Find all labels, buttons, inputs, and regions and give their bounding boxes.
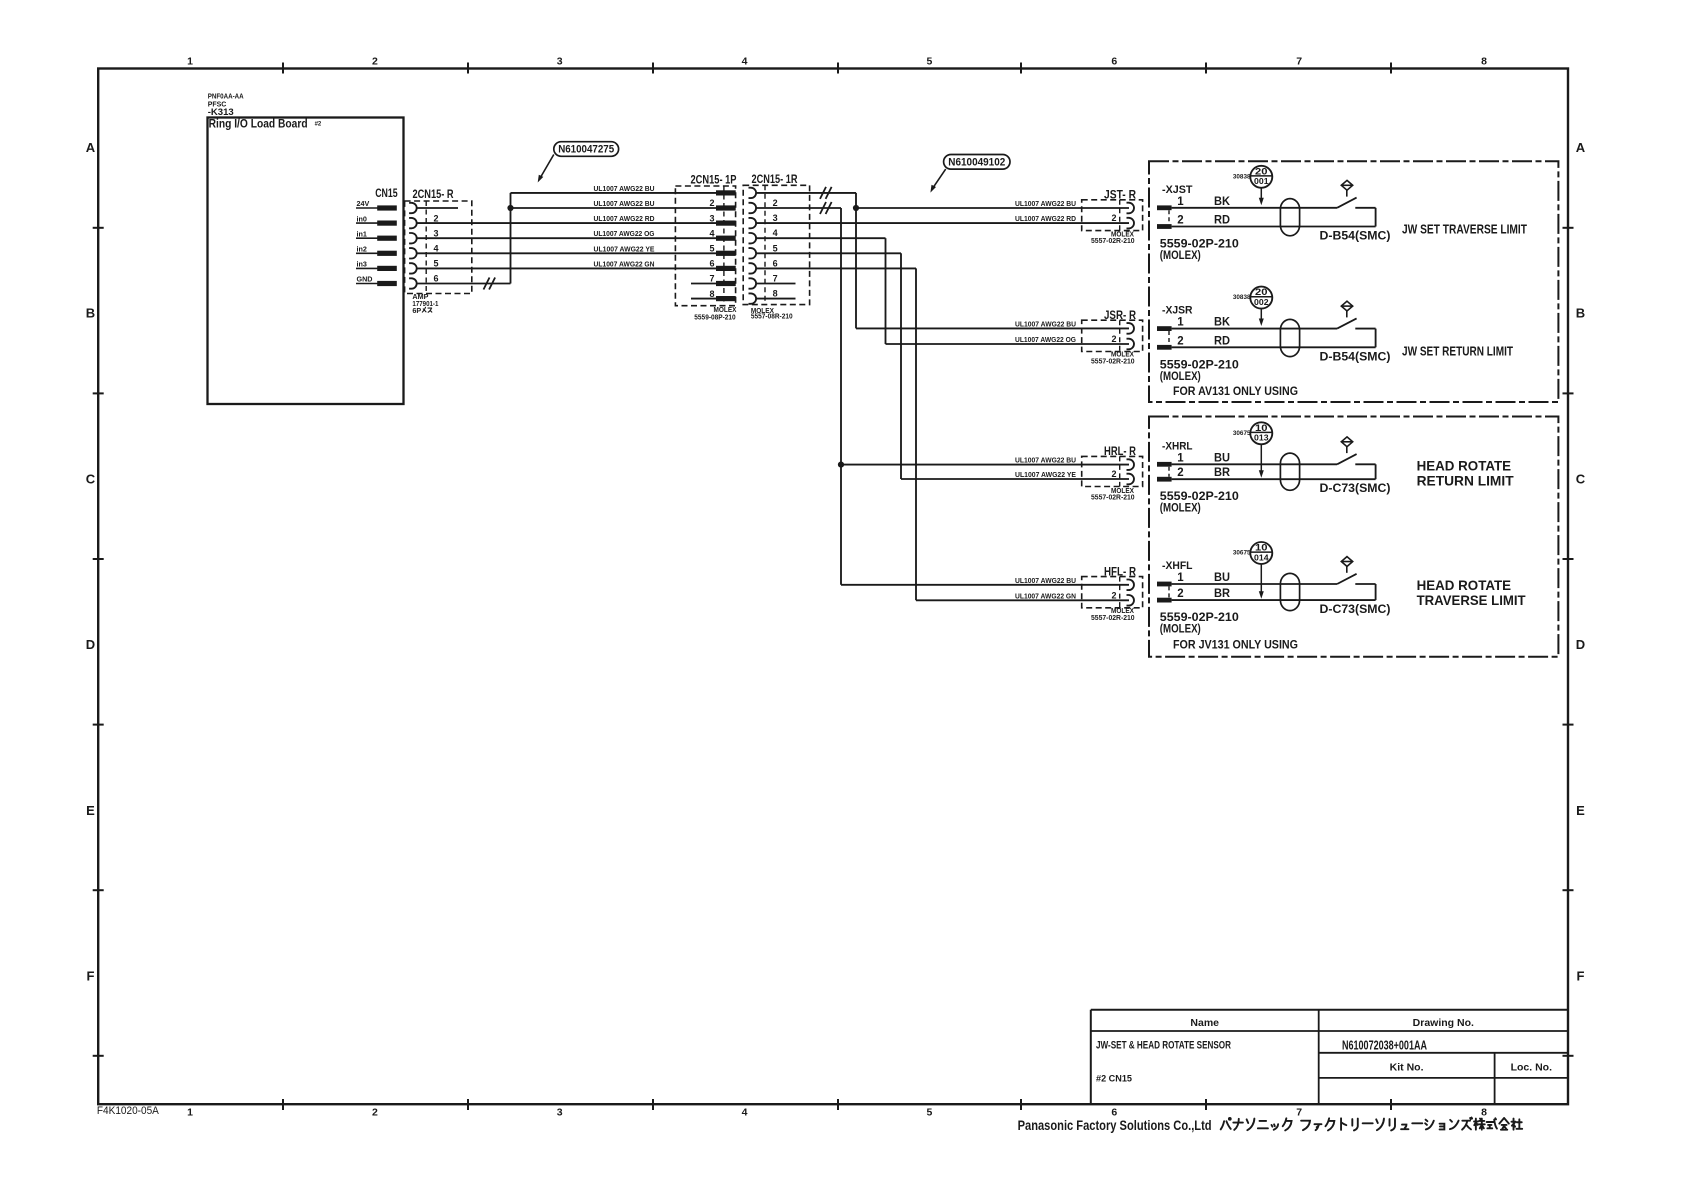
sensor -XJSR label [1162,305,1193,317]
wire BU to 2CN15-1P pin2 [511,207,717,209]
svg-text:4: 4 [773,228,778,238]
connector 2CN15-1R contacts [749,188,757,304]
svg-text:2: 2 [372,1107,378,1119]
svg-text:UL1007 AWG22 OG: UL1007 AWG22 OG [594,229,655,238]
wire YE drop to HRL-R pin2 [756,253,1129,479]
wire -XJST pin2 RD return loop [1172,208,1376,227]
wire harness cable 1 BU with twisted mark [756,187,856,199]
connector JST-R label [1104,190,1137,202]
svg-text:Panasonic Factory Solutions Co: Panasonic Factory Solutions Co.,Ltd [1018,1117,1212,1133]
svg-text:(MOLEX): (MOLEX) [1160,624,1201,636]
svg-text:UL1007 AWG22 RD: UL1007 AWG22 RD [1015,214,1076,223]
cable marker oval -XJST [1280,199,1299,236]
svg-text:HRL- R: HRL- R [1104,446,1137,458]
wire label UL1007 AWG22 YE [1015,470,1076,479]
wire in0 to 2CN15-1P pin3 [417,222,716,224]
svg-text:20: 20 [1255,166,1268,177]
svg-text:FOR AV131 ONLY USING: FOR AV131 ONLY USING [1173,384,1298,398]
svg-text:2: 2 [1177,588,1183,600]
svg-text:30675: 30675 [1233,430,1251,437]
wire labels UL1007 AWG22 left harness [594,184,655,269]
svg-text:4: 4 [709,228,714,238]
zone letters right [1576,140,1586,984]
svg-text:7: 7 [773,274,778,284]
zone numbers top [187,56,1487,68]
svg-text:5: 5 [926,1107,932,1119]
connector 2CN15-R pin numbers 2-6 [434,213,439,283]
svg-text:BU: BU [1214,572,1230,584]
svg-text:2: 2 [1177,467,1183,479]
svg-text:FOR JV131 ONLY USING: FOR JV131 ONLY USING [1173,638,1298,652]
svg-text:3: 3 [709,213,714,223]
connector 2CN15-R dashed box [405,201,472,294]
sensor -XHRL pin bars [1157,462,1172,482]
balloon arrow for -XHRL [1259,444,1264,478]
svg-text:C: C [1576,471,1586,486]
svg-text:2CN15- R: 2CN15- R [413,189,455,201]
connector HRL-R pin number 2 [1111,469,1116,479]
svg-text:#2 CN15: #2 CN15 [1096,1073,1133,1084]
sensor -XJST label [1162,184,1193,196]
wire -XJSR pin2 RD return loop [1172,329,1376,348]
connector 2CN15-1P part text MOLEX 5559-08P-210 [694,305,736,321]
wire label UL1007 AWG22 BU [1015,319,1076,328]
svg-text:2: 2 [1177,335,1183,347]
junction node BU at HRL row [838,462,844,468]
svg-text:10: 10 [1255,423,1268,434]
svg-text:2CN15- 1P: 2CN15- 1P [691,175,737,187]
svg-text:E: E [1576,803,1585,818]
sensor -XHRL label [1162,440,1193,452]
connector JST-R part text MOLEX 5557-02R-210 [1091,229,1135,245]
svg-text:UL1007 AWG22 BU: UL1007 AWG22 BU [1015,576,1076,585]
document number F4K1020-05A [97,1105,160,1117]
sensor -XHFL part text 5559-02P-210 (MOLEX) [1160,612,1239,636]
connector 2CN15-1P pin bars [716,190,736,301]
svg-text:2CN15- 1R: 2CN15- 1R [752,174,799,186]
connector 2CN15-R label [413,189,455,201]
limit switch -XHFL actuator diamond [1341,557,1352,573]
svg-text:6P: 6P [412,306,421,315]
wire label UL1007 AWG22 BU [1015,199,1076,208]
svg-text:2: 2 [372,56,378,68]
svg-text:2: 2 [1111,469,1116,479]
svg-text:3: 3 [557,56,563,68]
svg-text:C: C [86,471,96,486]
sensor -XJSR pin bars [1157,326,1172,349]
sensor -XHFL label [1162,560,1193,572]
wire label UL1007 AWG22 OG [1015,335,1076,344]
svg-text:2: 2 [1111,334,1116,344]
svg-text:UL1007 AWG22 RD: UL1007 AWG22 RD [594,214,655,223]
svg-text:Drawing No.: Drawing No. [1413,1017,1474,1029]
svg-text:UL1007 AWG22 BU: UL1007 AWG22 BU [1015,319,1076,328]
svg-text:1: 1 [1177,196,1184,208]
callout N610049102 [930,155,1010,193]
board -K313 Ring I/O Load Board outline [208,118,404,405]
callout N610047275 [538,142,619,183]
svg-text:1: 1 [187,56,193,68]
svg-text:6: 6 [709,259,714,269]
svg-text:5: 5 [926,56,932,68]
connector JST-R contacts [1127,203,1135,229]
function label HEAD ROTATE TRAVERSE LIMIT [1417,577,1526,608]
svg-text:HEAD ROTATE: HEAD ROTATE [1417,457,1512,473]
connector 2CN15-1P pin7 pin8 stubs [691,284,716,299]
svg-text:10: 10 [1255,543,1268,554]
svg-text:UL1007 AWG22 OG: UL1007 AWG22 OG [1015,335,1076,344]
sensor -XJST wire codes BK RD [1214,196,1231,227]
note FOR JV131 ONLY USING [1173,638,1298,652]
svg-text:F: F [1577,969,1585,984]
wire -XJST pin1 BK [1172,207,1338,209]
sensor -XJST device D-B54(SMC) [1320,229,1391,243]
svg-text:5: 5 [709,244,714,254]
wire label UL1007 AWG22 GN [1015,591,1076,600]
svg-text:RETURN LIMIT: RETURN LIMIT [1417,472,1514,488]
svg-text:4: 4 [434,244,439,254]
sensor -XHFL device D-C73(SMC) [1320,602,1391,616]
zone letters left [86,140,96,984]
svg-text:UL1007 AWG22 YE: UL1007 AWG22 YE [1015,470,1076,479]
connector 2CN15-1R part text MOLEX 5557-08R-210 [751,306,793,321]
svg-text:2: 2 [773,198,778,208]
svg-text:2: 2 [434,213,439,223]
svg-text:N610072038+001AA: N610072038+001AA [1342,1038,1427,1053]
svg-text:002: 002 [1254,298,1269,307]
wire 24V stub pin1 [417,207,458,209]
svg-text:5559-02P-210: 5559-02P-210 [1160,491,1239,503]
svg-text:N610047275: N610047275 [558,144,614,156]
svg-text:013: 013 [1254,434,1269,443]
svg-text:6: 6 [434,274,439,284]
svg-text:A: A [1576,140,1586,155]
sensor -XHFL pin bars [1157,582,1172,603]
connector HRL-R label [1104,446,1137,458]
sensor -XHRL wire codes BU BR [1214,452,1231,479]
svg-text:30838: 30838 [1233,173,1251,180]
balloon 30838 20/001 for -XJST [1233,166,1272,188]
svg-text:HEAD ROTATE: HEAD ROTATE [1417,577,1512,593]
svg-text:(MOLEX): (MOLEX) [1160,503,1201,515]
sensor -XJST pin bars [1157,205,1172,229]
title block name JW-SET & HEAD ROTATE SENSOR [1096,1039,1231,1051]
svg-text:RD: RD [1214,335,1230,347]
board title Ring I/O Load Board #2 [209,117,322,131]
svg-text:2: 2 [1111,590,1116,600]
cable marker oval -XJSR [1280,319,1299,356]
connector HFL-R pin number 2 [1111,590,1116,600]
wire GND with twisted mark [417,278,511,290]
limit switch -XHRL blade [1337,454,1357,464]
wire OG drop to JSR-R pin2 [756,238,1129,344]
wire BU to 2CN15-1P pin1 [511,192,717,194]
svg-text:5559-08P-210: 5559-08P-210 [694,312,735,321]
function label JW SET RETURN LIMIT [1402,344,1513,359]
sensor -XJSR part text 5559-02P-210 (MOLEX) [1160,359,1239,383]
connector HFL-R label [1104,566,1137,578]
cable marker oval -XHRL [1280,453,1299,490]
connector HRL-R contacts [1127,459,1135,484]
wire -XHFL pin1 BU [1172,583,1338,585]
wire cable 2 BU drop to HRL and HFL [841,208,1129,585]
svg-text:3: 3 [434,228,439,238]
svg-text:B: B [1576,306,1585,321]
sensor -XJSR wire codes BK RD [1214,317,1231,348]
connector 2CN15-1R label [752,174,799,186]
title block grid [1091,1010,1568,1104]
svg-text:in3: in3 [357,260,367,269]
connector 2CN15-1R dashed box [743,185,809,304]
svg-text:JST- R: JST- R [1104,190,1137,202]
title block note #2 CN15 [1096,1073,1133,1084]
zone numbers bottom [187,1107,1487,1119]
connector 2CN15-1R pin numbers [773,198,778,299]
svg-text:1: 1 [187,1107,193,1119]
sensor -XJST part text 5559-02P-210 (MOLEX) [1160,239,1239,263]
svg-text:F: F [87,969,95,984]
svg-text:001: 001 [1254,177,1269,186]
sensor -XHFL wire codes BU BR [1214,572,1231,600]
balloon arrow for -XHFL [1259,564,1264,599]
svg-text:30838: 30838 [1233,294,1251,301]
balloon 30838 20/002 for -XJSR [1233,287,1272,309]
sensor -XJSR pin numbers [1177,317,1184,348]
connector JST-R dashed box [1082,200,1143,231]
svg-text:B: B [86,306,95,321]
svg-text:5557-08R-210: 5557-08R-210 [751,312,793,321]
connector JST-R pin number 2 [1111,213,1116,223]
wire -XHRL pin1 BU [1172,463,1338,465]
svg-text:7: 7 [709,274,714,284]
balloon 30675 10/013 for -XHRL [1233,422,1272,444]
svg-text:8: 8 [1481,1107,1487,1119]
svg-text:UL1007 AWG22 GN: UL1007 AWG22 GN [1015,591,1076,600]
svg-text:5557-02R-210: 5557-02R-210 [1091,493,1135,502]
svg-text:JW SET TRAVERSE LIMIT: JW SET TRAVERSE LIMIT [1402,221,1527,236]
connector 2CN15-1P dashed box [675,186,735,306]
wire -XHFL pin2 BR return loop [1172,584,1376,600]
wire label UL1007 AWG22 RD [1015,214,1076,223]
svg-text:#2: #2 [315,122,322,128]
note FOR AV131 ONLY USING [1173,384,1298,398]
wire label UL1007 AWG22 BU [1015,576,1076,585]
svg-text:4: 4 [742,1107,748,1119]
wire BU to HRL-R pin1 [841,464,1129,466]
svg-text:6: 6 [1111,56,1117,68]
svg-text:5: 5 [434,259,439,269]
svg-text:D: D [86,637,95,652]
connector 2CN15-R contacts [409,203,417,289]
group dashed box AV131 sensors [1149,161,1558,402]
svg-text:5: 5 [773,243,778,253]
connector 2CN15-1P pin numbers [709,198,714,299]
connector JSR-R pin number 2 [1111,334,1116,344]
function label HEAD ROTATE RETURN LIMIT [1417,457,1514,488]
svg-text:3: 3 [773,213,778,223]
svg-text:GND: GND [357,275,373,284]
limit switch -XJSR actuator diamond [1341,301,1352,317]
svg-text:8: 8 [773,289,778,299]
svg-text:Name: Name [1190,1017,1219,1029]
svg-text:UL1007 AWG22 BU: UL1007 AWG22 BU [1015,456,1076,465]
svg-text:3: 3 [557,1107,563,1119]
svg-text:BR: BR [1214,588,1231,600]
title block header Loc. No. [1511,1062,1552,1074]
svg-text:UL1007 AWG22 YE: UL1007 AWG22 YE [594,244,655,253]
wire -XHRL pin2 BR return loop [1172,464,1376,479]
svg-text:1: 1 [1177,317,1184,329]
connector HRL-R dashed box [1082,456,1143,486]
wire BU to JST-R pin1 [856,207,1129,209]
svg-text:24V: 24V [357,199,370,208]
wire -XJSR pin1 BK [1172,328,1338,330]
title block header Name [1190,1017,1219,1029]
zone ticks top edge [283,63,1391,74]
sensor -XHRL pin numbers [1177,452,1184,479]
svg-text:A: A [86,140,96,155]
svg-text:F4K1020-05A: F4K1020-05A [97,1105,160,1117]
zone ticks left edge [93,228,104,1056]
connector JSR-R contacts [1127,323,1135,349]
svg-text:UL1007 AWG22 BU: UL1007 AWG22 BU [594,184,655,193]
svg-text:5559-02P-210: 5559-02P-210 [1160,239,1239,251]
svg-text:5559-02P-210: 5559-02P-210 [1160,359,1239,371]
wire GN drop to HFL-R pin2 [756,268,1129,600]
company name Panasonic Factory Solutions [1018,1117,1523,1133]
wire cable 1 BU drop to JSR [856,193,1129,329]
svg-text:6: 6 [773,258,778,268]
junction node riser to BU wire [507,205,513,211]
title block header Drawing No. [1413,1017,1474,1029]
group dashed box JV131 sensors [1149,417,1558,657]
connector 2CN15-1R pin7 pin8 stubs [756,284,795,299]
svg-text:E: E [86,803,95,818]
sensor -XJST pin numbers [1177,196,1184,227]
connector JSR-R dashed box [1082,320,1143,351]
function label JW SET TRAVERSE LIMIT [1402,221,1527,236]
sensor -XHFL pin numbers [1177,572,1184,600]
limit switch -XJST blade [1337,198,1357,208]
cable marker oval -XHFL [1280,573,1299,610]
svg-text:BK: BK [1214,196,1231,208]
connector HFL-R dashed box [1082,577,1143,608]
balloon arrow for -XJSR [1259,309,1264,326]
wire in3 to 2CN15-1P pin6 [417,267,716,269]
svg-text:30675: 30675 [1233,550,1251,557]
connector CN15 pins 24V in0 in1 in2 in3 GND [356,199,397,286]
svg-text:-XHRL: -XHRL [1162,440,1193,452]
svg-text:JW SET RETURN LIMIT: JW SET RETURN LIMIT [1402,344,1513,359]
svg-text:N610049102: N610049102 [948,156,1005,168]
limit switch -XJST actuator diamond [1341,180,1352,196]
svg-text:8: 8 [709,289,714,299]
sensor -XHRL part text 5559-02P-210 (MOLEX) [1160,491,1239,515]
wire RD to JST-R pin2 [756,222,1129,224]
svg-text:2: 2 [1111,213,1116,223]
svg-text:7: 7 [1296,56,1302,68]
sensor -XHRL device D-C73(SMC) [1320,481,1391,495]
svg-text:-XHFL: -XHFL [1162,560,1193,572]
svg-text:5557-02R-210: 5557-02R-210 [1091,613,1135,622]
limit switch -XJSR blade [1337,318,1357,328]
connector JSR-R label [1104,310,1137,322]
connector HFL-R contacts [1127,580,1134,606]
svg-text:in0: in0 [357,214,367,223]
svg-text:1: 1 [1177,452,1184,464]
svg-text:Ring I/O Load Board: Ring I/O Load Board [209,117,308,131]
svg-text:D: D [1576,637,1585,652]
svg-text:4: 4 [742,56,748,68]
zone ticks bottom edge [283,1099,1391,1110]
svg-text:BU: BU [1214,452,1230,464]
svg-text:BR: BR [1214,467,1231,479]
svg-text:Kit No.: Kit No. [1390,1062,1424,1074]
connector 2CN15-1P label [691,175,737,187]
svg-text:-XJST: -XJST [1162,184,1193,196]
svg-text:2: 2 [709,198,714,208]
zone ticks right edge [1563,228,1574,1056]
svg-text:in2: in2 [357,245,367,254]
title block drawing number N610072038+001AA [1342,1038,1427,1053]
svg-text:BK: BK [1214,317,1231,329]
connector 2CN15-R part text AMP 177901-1 6P [412,292,438,315]
svg-text:7: 7 [1296,1107,1302,1119]
balloon 30675 10/014 for -XHFL [1233,542,1272,564]
svg-text:Loc. No.: Loc. No. [1511,1062,1552,1074]
limit switch -XHFL blade [1337,574,1357,584]
svg-text:JSR- R: JSR- R [1104,310,1137,322]
balloon arrow for -XJST [1259,188,1264,205]
title block header Kit No. [1390,1062,1424,1074]
svg-text:20: 20 [1255,287,1268,298]
wire in1 to 2CN15-1P pin4 [417,237,716,239]
wire label UL1007 AWG22 BU [1015,456,1076,465]
board designation text PNF0AA-AA PFSC -K313 [208,94,244,119]
svg-text:5557-02R-210: 5557-02R-210 [1091,356,1135,365]
svg-text:D-B54(SMC): D-B54(SMC) [1320,349,1391,363]
border frame [98,69,1568,1105]
svg-text:8: 8 [1481,56,1487,68]
wire harness cable 2 BU with twisted mark [756,202,841,214]
svg-text:(MOLEX): (MOLEX) [1160,371,1201,383]
svg-text:(MOLEX): (MOLEX) [1160,250,1201,262]
svg-text:CN15: CN15 [375,188,398,200]
svg-text:5559-02P-210: 5559-02P-210 [1160,612,1239,624]
connector CN15 label [375,188,398,200]
wire GND riser vertical [510,193,512,284]
svg-text:2: 2 [1177,215,1183,227]
svg-text:1: 1 [1177,572,1184,584]
junction node BU at JST row [853,205,859,211]
svg-text:D-C73(SMC): D-C73(SMC) [1320,481,1391,495]
connector JSR-R part text MOLEX 5557-02R-210 [1091,350,1135,366]
svg-text:PNF0AA-AA: PNF0AA-AA [208,94,244,101]
svg-text:JW-SET & HEAD ROTATE SENSOR: JW-SET & HEAD ROTATE SENSOR [1096,1039,1231,1051]
svg-text:UL1007 AWG22 BU: UL1007 AWG22 BU [1015,199,1076,208]
svg-text:-XJSR: -XJSR [1162,305,1193,317]
sensor -XJSR device D-B54(SMC) [1320,349,1391,363]
svg-text:D-C73(SMC): D-C73(SMC) [1320,602,1391,616]
svg-text:014: 014 [1254,553,1269,562]
svg-text:HFL- R: HFL- R [1104,566,1137,578]
svg-text:RD: RD [1214,215,1230,227]
svg-text:D-B54(SMC): D-B54(SMC) [1320,229,1391,243]
connector HFL-R part text MOLEX 5557-02R-210 [1091,606,1135,622]
limit switch -XHRL actuator diamond [1341,437,1352,453]
svg-text:UL1007 AWG22 BU: UL1007 AWG22 BU [594,199,655,208]
svg-text:in1: in1 [357,229,367,238]
